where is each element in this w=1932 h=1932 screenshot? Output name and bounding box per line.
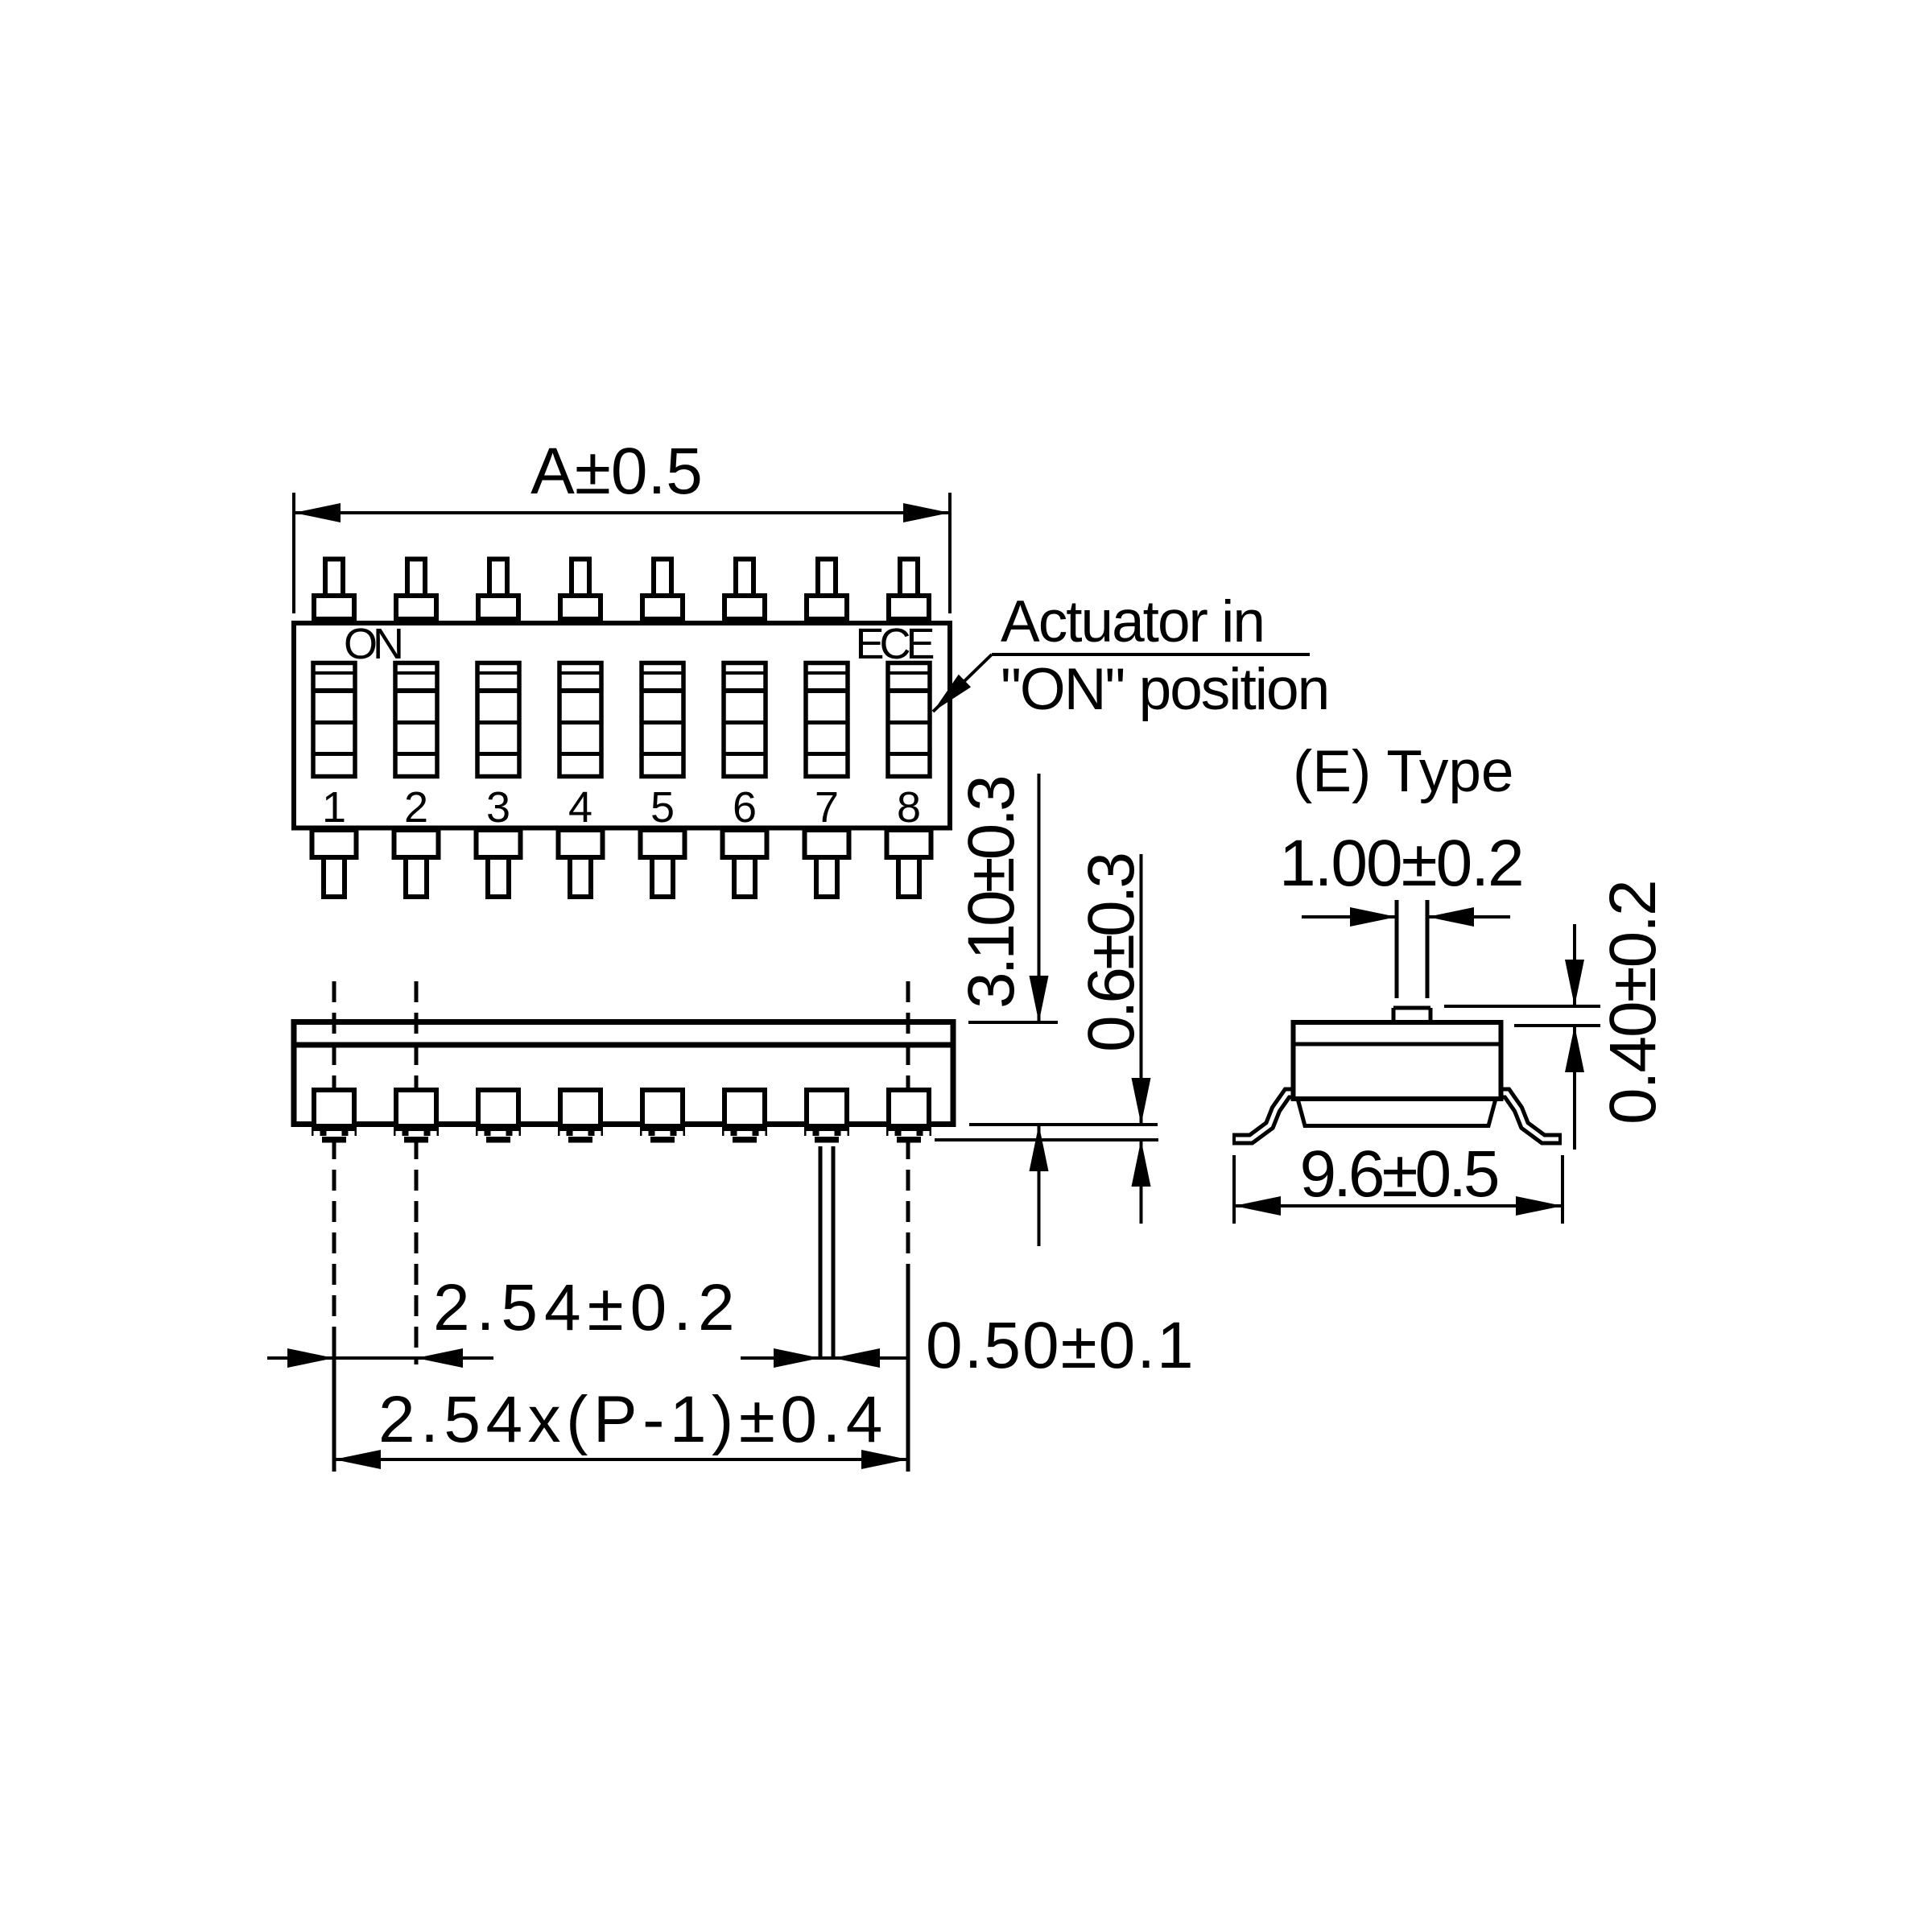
svg-text:6: 6: [733, 783, 757, 832]
svg-text:3.10±0.3: 3.10±0.3: [955, 778, 1028, 1009]
svg-text:ON: ON: [344, 620, 401, 668]
svg-text:5: 5: [650, 783, 675, 832]
svg-text:"ON" position: "ON" position: [1001, 657, 1328, 722]
svg-text:3: 3: [486, 783, 510, 832]
svg-text:7: 7: [815, 783, 839, 832]
svg-text:4: 4: [568, 783, 592, 832]
svg-text:8: 8: [897, 783, 921, 832]
svg-text:ECE: ECE: [855, 620, 933, 668]
svg-text:9.6±0.5: 9.6±0.5: [1300, 1137, 1498, 1211]
svg-text:0.40±0.2: 0.40±0.2: [1596, 881, 1670, 1125]
svg-text:Actuator in: Actuator in: [1001, 589, 1264, 654]
svg-text:2.54x(P-1)±0.4: 2.54x(P-1)±0.4: [378, 1383, 888, 1456]
svg-text:A±0.5: A±0.5: [530, 435, 703, 508]
svg-text:(E) Type: (E) Type: [1293, 739, 1514, 804]
svg-text:0.6±0.3: 0.6±0.3: [1075, 855, 1148, 1052]
svg-text:1: 1: [322, 783, 346, 832]
svg-text:1.00±0.2: 1.00±0.2: [1279, 827, 1523, 900]
svg-text:2: 2: [404, 783, 428, 832]
svg-text:2.54±0.2: 2.54±0.2: [433, 1271, 741, 1344]
svg-text:0.50±0.1: 0.50±0.1: [926, 1309, 1195, 1382]
